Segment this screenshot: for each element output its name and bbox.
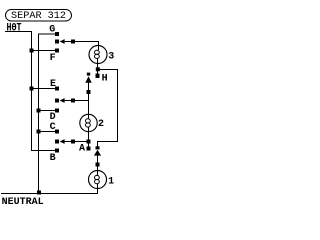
svg-text:E: E (50, 79, 56, 90)
splice square on lamp1 wire (96, 163, 100, 167)
plug arrow at H (up) (85, 76, 91, 83)
plug cap at H (87, 73, 90, 76)
wire plug 1 to lamp 3 (64, 42, 98, 47)
wire branch H to right rail (98, 70, 118, 147)
splice square on plug 3 wire (71, 140, 75, 144)
junction dot V2 at neutral rail (37, 191, 41, 195)
junction dot C on V2 (37, 130, 41, 134)
wire lamp 1 down to neutral (97, 184, 99, 194)
splice square on lamp2 wire (87, 90, 91, 94)
terminal post G (55, 32, 59, 36)
wire stub terminal B (32, 150, 58, 152)
wire bus V2 (neutral) (38, 34, 40, 194)
junction dot F on V1 (30, 49, 34, 53)
terminal post F (55, 49, 59, 53)
svg-text:G: G (49, 25, 55, 36)
plug arrow 2 (60, 98, 65, 103)
plug socket 2 (55, 99, 59, 103)
junction dot E on V1 (30, 87, 34, 91)
lamp 1 filament (95, 175, 100, 179)
wire lamp 3 axis upper (98, 44, 100, 50)
svg-text:3: 3 (108, 52, 114, 63)
title box SEPAR 312 (6, 10, 72, 22)
wire plug 3 (64, 141, 88, 143)
terminal post E (55, 87, 59, 91)
lamp 3 bulb (89, 46, 107, 64)
wire H plug down to lamp 2 (88, 83, 90, 119)
svg-text:2: 2 (98, 119, 104, 130)
wire neutral rail (1, 193, 98, 195)
plug arrow 3 (60, 139, 65, 144)
wire lamp 3 axis lower to terminal H (97, 59, 99, 74)
svg-text:SEPAR 312: SEPAR 312 (11, 11, 66, 22)
plug arrow 1 (60, 39, 65, 44)
plug arrow above lamp1 (up) (94, 150, 101, 156)
svg-text:A: A (79, 144, 85, 155)
terminal post H (96, 74, 100, 79)
wire A plug down to lamp 1 (97, 155, 99, 175)
wire stub terminal F (32, 50, 58, 52)
plug socket 3 (55, 140, 59, 144)
slash bar in O of HOT (13, 26, 16, 27)
wire plug 2 (64, 100, 89, 102)
wire HOT feed (5, 31, 32, 33)
lamp 1 bulb (89, 171, 107, 189)
splice square on plug 2 wire (71, 99, 75, 103)
wire stub terminal E (32, 88, 58, 90)
lamp 2 filament (86, 119, 91, 123)
svg-text:C: C (50, 122, 56, 133)
plug cap above lamp1 (96, 146, 100, 149)
wire lamp 2 down to node A (88, 127, 90, 146)
junction dot D on V2 (37, 109, 41, 113)
terminal post B (55, 149, 59, 153)
svg-text:NEUTRAL: NEUTRAL (2, 197, 44, 208)
svg-text:1: 1 (108, 177, 114, 188)
wire stub terminal G (38, 33, 57, 35)
terminal post C (55, 130, 59, 134)
terminal post A (87, 147, 91, 151)
svg-text:F: F (50, 53, 56, 64)
junction dot H branch (96, 67, 100, 71)
wire bus V1 (hot) (31, 31, 33, 151)
svg-text:HOT: HOT (7, 22, 22, 34)
lamp 2 bulb (80, 114, 97, 131)
svg-text:B: B (50, 153, 56, 164)
plug socket 1 (55, 40, 59, 44)
wire stub terminal C (39, 131, 58, 133)
junction dot node A wire (87, 140, 91, 144)
lamp 3 filament (95, 50, 100, 54)
terminal post D (55, 109, 59, 113)
splice square on plug 1 wire (71, 40, 75, 44)
svg-text:H: H (102, 74, 108, 85)
wire stub terminal D (39, 110, 58, 112)
